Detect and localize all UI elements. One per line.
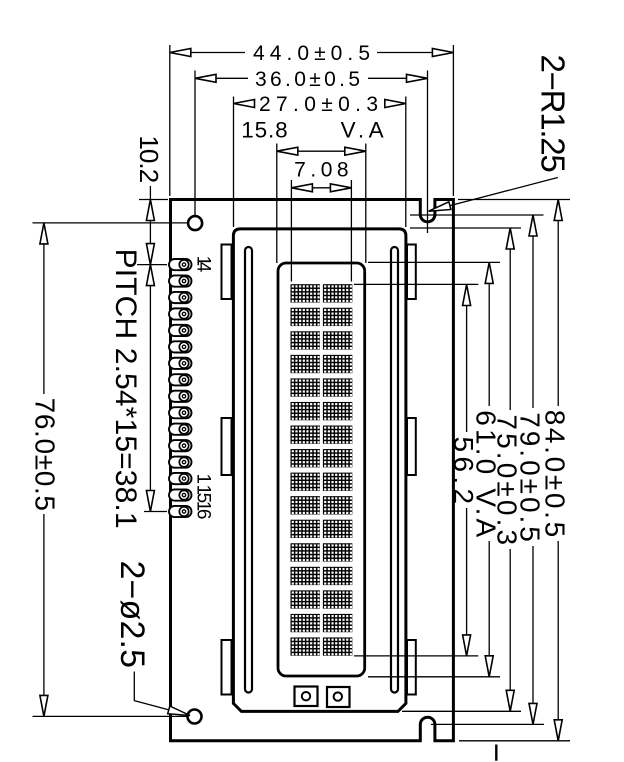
svg-text:14: 14 — [193, 256, 214, 273]
svg-text:V.A: V.A — [341, 118, 384, 143]
svg-text:2−ø2.5: 2−ø2.5 — [113, 561, 151, 669]
svg-text:61.0 V.A: 61.0 V.A — [471, 410, 502, 537]
svg-text:7.08: 7.08 — [294, 159, 349, 182]
svg-text:2−R1.25: 2−R1.25 — [535, 55, 572, 173]
svg-text:76.0±0.5: 76.0±0.5 — [29, 398, 60, 511]
svg-text:1 1516: 1 1516 — [193, 474, 214, 520]
svg-text:15.8: 15.8 — [241, 118, 288, 143]
svg-text:10.2: 10.2 — [134, 135, 164, 183]
svg-text:PITCH 2.54*15=38.1: PITCH 2.54*15=38.1 — [109, 249, 142, 529]
svg-text:56.2: 56.2 — [448, 437, 479, 505]
